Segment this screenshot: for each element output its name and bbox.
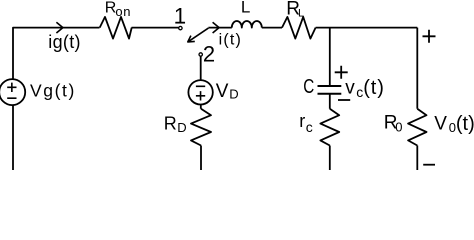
wire left rail and top wire to R_on xyxy=(13,28,100,80)
svg-text:v: v xyxy=(345,77,355,98)
voltage source V_D xyxy=(188,80,212,104)
wire V_D to R_D xyxy=(200,105,202,109)
svg-text:on: on xyxy=(115,4,131,19)
label R_0 xyxy=(384,113,403,135)
wire below Vg to bottom edge xyxy=(12,105,14,170)
node 1 terminal xyxy=(179,26,182,29)
voltage source Vg xyxy=(0,79,25,105)
label + of v_c xyxy=(335,66,348,79)
label + of V_0 xyxy=(423,30,436,43)
label r_c xyxy=(299,111,313,135)
wire junction down to capacitor xyxy=(329,28,331,85)
svg-text:1: 1 xyxy=(174,4,186,29)
label 1 xyxy=(174,4,186,29)
wire capacitor to r_c xyxy=(329,94,331,109)
wire below R_D to bottom edge xyxy=(200,146,202,171)
svg-text:0: 0 xyxy=(395,120,402,135)
resistor R_on xyxy=(100,17,132,39)
svg-text:Vg(t): Vg(t) xyxy=(30,80,76,100)
resistor R_L xyxy=(282,17,316,39)
svg-text:(t): (t) xyxy=(363,77,385,99)
wire below r_c to bottom edge xyxy=(329,146,331,171)
label R_L xyxy=(286,0,304,20)
arrow i current direction xyxy=(213,22,220,33)
svg-text:V: V xyxy=(216,81,229,102)
svg-text:D: D xyxy=(229,87,238,102)
resistor R_D xyxy=(191,109,211,146)
svg-text:ig(t): ig(t) xyxy=(48,32,81,52)
svg-text:C: C xyxy=(303,76,314,98)
wire below R_0 to bottom edge xyxy=(416,146,418,171)
wire node 2 to V_D source xyxy=(200,56,202,80)
svg-text:L: L xyxy=(241,0,250,17)
wire switch pole to inductor xyxy=(208,27,231,29)
svg-text:L: L xyxy=(298,7,304,19)
label V_0(t) xyxy=(434,113,474,135)
capacitor C plates xyxy=(318,86,342,94)
svg-text:V: V xyxy=(434,113,447,134)
svg-text:2: 2 xyxy=(203,42,215,67)
label v_c(t) xyxy=(345,77,384,100)
switch blade with arrowhead xyxy=(188,28,209,42)
svg-text:R: R xyxy=(164,114,177,134)
wire inductor to R_L xyxy=(262,27,282,29)
label R_on xyxy=(105,0,131,19)
svg-text:i(t): i(t) xyxy=(219,31,242,48)
resistor r_c xyxy=(320,109,339,146)
svg-text:r: r xyxy=(299,111,305,131)
svg-text:(t): (t) xyxy=(456,113,474,135)
label R_D xyxy=(164,114,187,136)
svg-text:c: c xyxy=(306,119,313,135)
wire right rail down to R_0 xyxy=(416,28,418,109)
wire R_L to top right corner xyxy=(316,27,418,29)
inductor L xyxy=(232,21,262,28)
arrow ig current direction xyxy=(56,22,63,33)
label V_D xyxy=(216,81,239,102)
svg-text:c: c xyxy=(356,84,363,100)
svg-text:D: D xyxy=(177,120,186,135)
resistor R_0 xyxy=(408,109,426,146)
svg-text:0: 0 xyxy=(449,120,456,135)
label - of v_c xyxy=(338,99,350,101)
label - of V_0 xyxy=(423,164,435,166)
node 2 terminal xyxy=(199,53,202,56)
wire R_on to node 1 xyxy=(132,27,179,29)
